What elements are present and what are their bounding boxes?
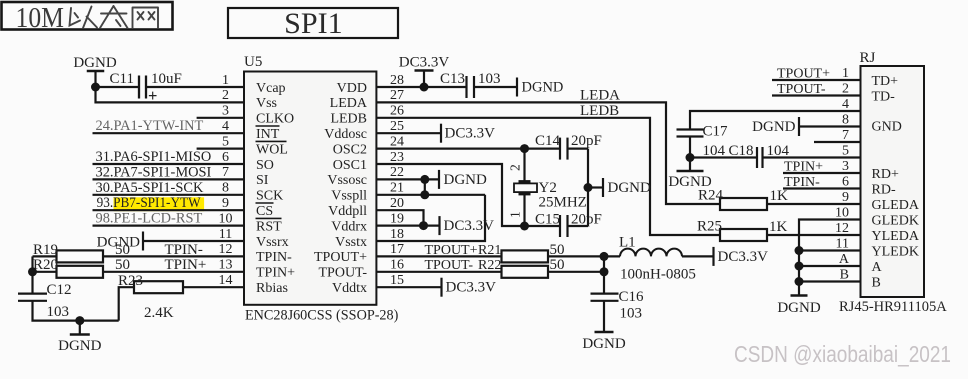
svg-text:ENC28J60CSS (SSOP-28): ENC28J60CSS (SSOP-28) (245, 308, 399, 324)
svg-text:Vss: Vss (256, 96, 277, 111)
svg-text:DGND: DGND (777, 300, 820, 316)
svg-text:100nH-0805: 100nH-0805 (620, 267, 696, 283)
svg-text:U5: U5 (244, 54, 262, 70)
svg-text:Vddrx: Vddrx (331, 219, 367, 234)
svg-text:2: 2 (222, 88, 229, 103)
wire C14 to gnd bus (568, 148, 589, 150)
wire pin15 to DC3.3V (376, 286, 441, 288)
svg-text:DC3.3V: DC3.3V (445, 126, 496, 142)
svg-text:OSC1: OSC1 (333, 158, 367, 173)
svg-text:DC3.3V: DC3.3V (444, 218, 495, 234)
power DC3.3V at pin 19 (438, 216, 440, 235)
svg-text:24.PA1-YTW-INT: 24.PA1-YTW-INT (96, 118, 204, 134)
svg-text:4: 4 (222, 119, 229, 134)
svg-text:C12: C12 (47, 282, 72, 298)
svg-text:1: 1 (508, 211, 523, 218)
svg-text:DC3.3V: DC3.3V (718, 249, 769, 265)
wire C15 to gnd bus (568, 225, 589, 227)
svg-text:50: 50 (115, 242, 130, 258)
svg-text:R25: R25 (697, 219, 722, 235)
highlight for net 93.PB7-SPI1-YTW (114, 197, 205, 211)
svg-text:28: 28 (390, 73, 404, 88)
wire net 32.PA7-SPI1-MOSI to pin 7 (93, 178, 245, 180)
svg-text:Vddpll: Vddpll (328, 204, 367, 219)
svg-text:31.PA6-SPI1-MISO: 31.PA6-SPI1-MISO (96, 149, 212, 165)
node junction C17/C18 (686, 153, 695, 162)
svg-text:19: 19 (390, 211, 404, 226)
svg-text:11: 11 (219, 227, 232, 242)
svg-text:14: 14 (219, 273, 233, 288)
wire net 98.PE1-LCD-RST to pin 10 (93, 225, 245, 227)
svg-text:TPIN-: TPIN- (256, 250, 292, 265)
svg-text:22: 22 (390, 165, 404, 180)
power DC3.3V at pin 25 (440, 124, 442, 143)
svg-text:C15: C15 (535, 212, 560, 228)
wire pin24 to C14 (376, 148, 560, 150)
svg-text:Vddosc: Vddosc (324, 127, 367, 142)
wire RJ pin10 to gnd bus (799, 220, 861, 296)
svg-text:6: 6 (842, 174, 849, 189)
svg-text:TD-: TD- (872, 89, 896, 104)
ground DGND at C16 (595, 331, 614, 333)
svg-text:7: 7 (842, 128, 849, 143)
node junction pin21 (420, 190, 429, 199)
svg-text:GND: GND (872, 120, 902, 135)
wire DGND to Vss (96, 87, 245, 102)
svg-text:DC3.3V: DC3.3V (399, 55, 450, 71)
wire pin21 to corner (376, 194, 485, 196)
svg-text:GLEDK: GLEDK (872, 213, 919, 228)
svg-text:20: 20 (390, 196, 404, 211)
power DC3.3V at pin 15 (440, 278, 442, 297)
wire bus to DGND bar (588, 186, 603, 188)
svg-text:DGND: DGND (752, 119, 795, 135)
svg-text:93.PB7-SPI1-YTW: 93.PB7-SPI1-YTW (97, 195, 201, 211)
title box 10M Ethernet (2, 2, 173, 30)
svg-text:50: 50 (115, 257, 130, 273)
wire pin22 to DGND (376, 178, 439, 180)
svg-text:2: 2 (842, 81, 849, 96)
svg-text:CLKO: CLKO (256, 112, 294, 127)
svg-text:26: 26 (390, 104, 404, 119)
resistor R25 (720, 229, 767, 241)
svg-text:10uF: 10uF (151, 71, 182, 87)
node junction L1 (600, 252, 609, 261)
svg-text:R19: R19 (33, 242, 58, 258)
svg-text:C16: C16 (619, 289, 645, 305)
wire pin16 to R22 (376, 271, 501, 273)
svg-text:R22: R22 (478, 258, 501, 273)
svg-text:27: 27 (390, 88, 404, 103)
svg-text:7: 7 (222, 165, 229, 180)
svg-text:DGND: DGND (522, 80, 564, 96)
svg-text:RD-: RD- (872, 182, 896, 197)
wire pin3 stub (197, 117, 244, 119)
ground DGND at C17 (689, 158, 691, 171)
wire pin5 stub (197, 148, 244, 150)
svg-text:10: 10 (835, 205, 849, 220)
wire pin25 to DC3.3V (376, 132, 441, 134)
svg-text:3: 3 (222, 104, 229, 119)
node junction OSC1/crystal (520, 222, 529, 231)
svg-text:103: 103 (47, 304, 70, 320)
wire RJ pin6 (783, 187, 861, 189)
svg-text:A: A (839, 252, 850, 267)
wire C12 to bottom rail (33, 301, 119, 321)
capacitor C14 plates (559, 138, 561, 160)
capacitor C13 plates (465, 76, 467, 98)
svg-text:10: 10 (219, 211, 233, 226)
svg-text:RST: RST (256, 219, 282, 234)
svg-text:TPOUT-: TPOUT- (425, 258, 474, 273)
node junction bottom DGND (75, 316, 84, 325)
wire C18 to RJ pin5 (763, 156, 862, 158)
svg-text:25MHZ: 25MHZ (539, 195, 587, 211)
power DC3.3V at L1 (712, 247, 714, 266)
svg-text:C13: C13 (440, 71, 465, 87)
node junction OSC2/crystal (520, 144, 529, 153)
svg-text:TPIN+: TPIN+ (165, 257, 207, 273)
svg-text:C14: C14 (535, 133, 561, 149)
svg-text:1: 1 (222, 73, 229, 88)
wire net 93.PB7-SPI1-YTW to pin 9 (93, 209, 245, 211)
wire RJ pin8 (799, 125, 861, 127)
svg-text:DGND: DGND (73, 55, 116, 71)
capacitor C17 plates (677, 128, 704, 130)
wire C11 to pin1 (146, 86, 244, 88)
svg-text:VDD: VDD (337, 81, 367, 96)
wire LEDB from pin26 to R25 (376, 118, 720, 235)
wire node to C18 (690, 156, 757, 158)
svg-text:DGND: DGND (582, 336, 625, 352)
wire RJ pin2 (772, 94, 861, 96)
svg-text:1K: 1K (770, 188, 789, 204)
ground DGND below RJ (791, 294, 808, 296)
svg-text:DGND: DGND (444, 172, 487, 188)
wire pin22 down to pin21 (424, 179, 426, 194)
node junction pin1 (91, 83, 100, 92)
svg-text:103: 103 (478, 71, 501, 87)
wire net 31.PA6-SPI1-MISO to pin 6 (93, 163, 245, 165)
svg-text:TPOUT+: TPOUT+ (425, 243, 478, 258)
svg-text:2.4K: 2.4K (144, 305, 174, 321)
svg-text:5: 5 (842, 143, 849, 158)
wire net 24.PA1-YTW-INT to pin 4 (93, 132, 245, 134)
svg-text:15: 15 (390, 273, 404, 288)
node junction pinA bus (795, 262, 804, 271)
svg-text:TPOUT+: TPOUT+ (314, 250, 367, 265)
svg-text:20pF: 20pF (571, 133, 602, 149)
svg-text:16: 16 (390, 258, 404, 273)
svg-text:RD+: RD+ (872, 167, 899, 182)
svg-text:TD+: TD+ (872, 74, 899, 89)
inductor L1 (620, 249, 682, 257)
svg-text:OSC2: OSC2 (333, 142, 367, 157)
svg-text:18: 18 (390, 227, 404, 242)
wire pin20 down to pin19 (376, 210, 423, 225)
wire R22 to node (548, 271, 604, 273)
wire C17 to node (689, 137, 691, 158)
svg-text:YLEDK: YLEDK (872, 244, 919, 259)
wire RJ pin3 (783, 172, 861, 174)
svg-text:YLEDA: YLEDA (872, 229, 920, 244)
svg-text:6: 6 (222, 150, 229, 165)
svg-text:25: 25 (390, 119, 404, 134)
wire pin23 jog to C15 (376, 164, 560, 226)
wire RJ pin4 down to C17 (690, 111, 861, 130)
svg-text:Vddtx: Vddtx (332, 281, 367, 296)
svg-text:9: 9 (222, 196, 229, 211)
svg-text:Vsstx: Vsstx (335, 235, 367, 250)
svg-text:LEDA: LEDA (330, 96, 368, 111)
wire crystal gnd bus (587, 149, 589, 226)
wire C13 to DGND (474, 86, 517, 88)
svg-text:12: 12 (835, 221, 849, 236)
svg-text:LEDA: LEDA (580, 88, 620, 104)
svg-text:4: 4 (842, 97, 849, 112)
svg-text:RJ: RJ (860, 50, 876, 66)
node junction pin19 (419, 221, 428, 230)
svg-text:Vcap: Vcap (256, 81, 286, 96)
svg-text:3: 3 (842, 159, 849, 174)
svg-text:CSDN @xiaobaibai_2021: CSDN @xiaobaibai_2021 (734, 341, 951, 367)
svg-text:CS: CS (256, 204, 273, 219)
title box SPI1 (228, 8, 398, 38)
ground DGND at crystal (602, 178, 604, 197)
resistor R22 (502, 266, 549, 278)
wire L1 to DC3.3V (682, 255, 714, 257)
svg-text:1K: 1K (769, 219, 788, 235)
svg-text:DGND: DGND (58, 338, 101, 354)
wire pin21 corner down to pin18 (376, 195, 485, 241)
connector RJ body (861, 66, 925, 297)
wire R24 to RJ pin9 (767, 203, 861, 205)
svg-text:Rbias: Rbias (256, 281, 288, 296)
svg-text:Vsspll: Vsspll (331, 189, 367, 204)
svg-text:INT: INT (256, 127, 280, 142)
resistor R20 (33, 271, 57, 273)
wire R23 to pin14 (183, 286, 244, 288)
node junction row16 (600, 267, 609, 276)
crystal Y2 (523, 149, 525, 182)
svg-text:R24: R24 (698, 188, 724, 204)
wire RJ pin7 stub (814, 141, 861, 143)
svg-text:11: 11 (836, 236, 849, 251)
svg-text:98.PE1-LCD-RST: 98.PE1-LCD-RST (96, 211, 203, 227)
svg-text:SI: SI (256, 173, 269, 188)
svg-text:Vssosc: Vssosc (327, 173, 367, 188)
svg-text:DGND: DGND (608, 180, 651, 196)
wire TPOUT node down to C16 (603, 256, 605, 293)
wire pin19 to DC3.3V (376, 225, 439, 227)
svg-text:B: B (872, 275, 881, 290)
svg-text:C17: C17 (703, 124, 729, 140)
svg-text:103: 103 (620, 306, 643, 322)
svg-text:1: 1 (842, 66, 849, 81)
wire LEDA from pin27 to R24 (376, 102, 720, 204)
wire R21 to L1 node (548, 255, 620, 257)
wire C16 to DGND (603, 301, 605, 332)
wire R25 to RJ pin12 (767, 234, 861, 236)
node junction gnd bus (584, 183, 593, 192)
svg-text:SCK: SCK (256, 189, 283, 204)
title text CJK yitaiwang (70, 6, 159, 28)
wire RJ pin1 (772, 79, 861, 81)
ground DGND at pin22 (438, 170, 440, 189)
resistor R24 (720, 198, 767, 210)
svg-text:SPI1: SPI1 (284, 7, 343, 40)
svg-text:10M: 10M (16, 3, 65, 34)
wire pin17 to R21 (376, 255, 501, 257)
svg-text:2: 2 (508, 164, 523, 171)
svg-text:TPIN+: TPIN+ (256, 266, 295, 281)
wire RJ pinB (799, 280, 861, 282)
ground DGND at C13 (516, 78, 518, 97)
svg-text:Vssrx: Vssrx (256, 235, 289, 250)
capacitor C16 plates (591, 293, 619, 295)
node junction pin22 (420, 175, 429, 184)
capacitor C11 plates (138, 76, 140, 99)
svg-text:24: 24 (390, 134, 404, 149)
ground DGND (bottom left) (79, 321, 81, 335)
resistor R23 (119, 287, 134, 320)
wire Vcap to C11 (96, 86, 140, 88)
wire R20 to pin13 (103, 271, 244, 273)
wire DGND to pin11 (143, 240, 244, 242)
svg-text:32.PA7-SPI1-MOSI: 32.PA7-SPI1-MOSI (96, 164, 212, 180)
svg-text:R21: R21 (478, 243, 501, 258)
wire RJ pinA (799, 265, 861, 267)
svg-text:TPIN-: TPIN- (165, 242, 203, 258)
svg-text:8: 8 (842, 112, 849, 127)
wire R19 to pin12 (103, 255, 244, 257)
svg-text:RJ45-HR911105A: RJ45-HR911105A (839, 299, 947, 315)
node junction pinB bus (795, 277, 804, 286)
svg-text:L1: L1 (619, 235, 636, 251)
svg-text:30.PA5-SPI1-SCK: 30.PA5-SPI1-SCK (96, 180, 204, 196)
wire net 30.PA5-SPI1-SCK to pin 8 (93, 194, 245, 196)
node junction R20 bus (28, 267, 37, 276)
svg-text:WOL: WOL (256, 142, 288, 157)
capacitor C18 plates (756, 147, 758, 168)
wire pin28 to C13 (376, 86, 466, 88)
svg-text:LEDB: LEDB (580, 103, 619, 119)
svg-text:12: 12 (219, 242, 233, 257)
svg-text:21: 21 (390, 181, 404, 196)
svg-text:DC3.3V: DC3.3V (446, 280, 497, 296)
capacitor C15 plates (559, 215, 561, 237)
resistor R21 (502, 250, 549, 262)
svg-text:8: 8 (222, 181, 229, 196)
svg-text:13: 13 (219, 258, 233, 273)
svg-text:TPOUT-: TPOUT- (319, 266, 368, 281)
svg-text:B: B (840, 267, 849, 282)
node junction pin11 bus (795, 246, 804, 255)
svg-text:9: 9 (842, 190, 849, 205)
svg-text:17: 17 (390, 242, 404, 257)
svg-text:SO: SO (256, 158, 274, 173)
node junction pin28 (420, 83, 429, 92)
svg-text:C11: C11 (110, 71, 134, 87)
capacitor C12 plates (18, 293, 47, 295)
wire RJ pin11 (799, 249, 861, 251)
svg-text:5: 5 (222, 134, 229, 149)
resistor R19 (33, 255, 57, 257)
op IC U5 body (244, 72, 376, 305)
svg-text:A: A (872, 260, 883, 275)
svg-text:LEDB: LEDB (330, 112, 367, 127)
wire left bus R19/R20 down to C12 (31, 256, 33, 293)
svg-text:C18: C18 (729, 143, 754, 159)
svg-text:GLEDA: GLEDA (872, 198, 920, 213)
svg-text:R23: R23 (118, 273, 143, 289)
svg-text:23: 23 (390, 150, 404, 165)
